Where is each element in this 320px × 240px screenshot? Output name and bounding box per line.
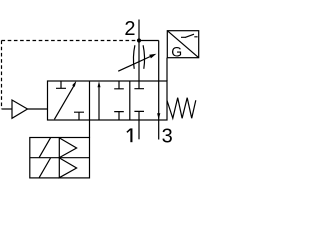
chamber 3 blocked port bottom (T) <box>134 111 144 120</box>
wire port 2 stub above junction <box>138 20 140 41</box>
amplifier stage 2 triangle <box>59 158 76 178</box>
amplifier stage 1 triangle <box>59 138 76 158</box>
wire junction down through throttle to valve port 2 <box>138 41 140 82</box>
svg-text:3: 3 <box>162 126 173 148</box>
chamber 3 flow arrow down (head) <box>157 113 160 119</box>
port 1 stub <box>138 120 140 139</box>
amplifier box middle divider <box>30 157 90 159</box>
pilot control line (dashed), vertical run <box>1 41 3 110</box>
throttle (flow control valve) right arc <box>143 45 144 69</box>
throttle (flow control valve) left arc <box>133 45 134 69</box>
amplifier stage 2 slash <box>39 158 50 178</box>
two-stage amplifier box <box>30 138 90 178</box>
wire amplifier to valve left port <box>28 108 48 110</box>
wire junction to right branch <box>139 40 159 42</box>
chamber 1 diagonal flow arrow <box>54 86 74 120</box>
svg-text:2: 2 <box>124 18 135 40</box>
wire valve to amplifier box <box>89 120 91 138</box>
pressure switch box <box>167 31 198 58</box>
chamber 1 blocked port top (T) <box>56 81 66 88</box>
pilot control line (dashed), horizontal run <box>2 40 137 42</box>
chamber 2 blocked port top (T) <box>114 81 124 89</box>
chamber 2 flow arrow up <box>98 86 100 120</box>
amplifier stage 1 slash <box>39 138 50 158</box>
chamber 2 blocked port bottom (T) <box>114 112 124 120</box>
valve V1 divider 2 <box>129 81 131 120</box>
amplifier triangle (pilot actuator) <box>12 100 28 118</box>
throttle adjustment arrow <box>118 57 150 72</box>
wire pressure switch drop line <box>166 58 168 81</box>
pressure switch diagonal <box>167 31 198 58</box>
spring return <box>167 98 196 119</box>
pressure switch contact symbol <box>181 34 198 37</box>
node: junction dot at port 2 branch <box>137 38 141 42</box>
label port 1 <box>130 128 132 142</box>
chamber 3 blocked port top (T) <box>134 81 144 89</box>
wire pilot to amplifier <box>2 108 13 110</box>
valve V1 divider 1 <box>89 81 91 120</box>
svg-text:G: G <box>171 44 182 60</box>
wire right branch down through valve to port 3 <box>158 41 160 140</box>
chamber 1 blocked port bottom (T) <box>74 112 84 120</box>
valve V1 body <box>48 81 168 120</box>
